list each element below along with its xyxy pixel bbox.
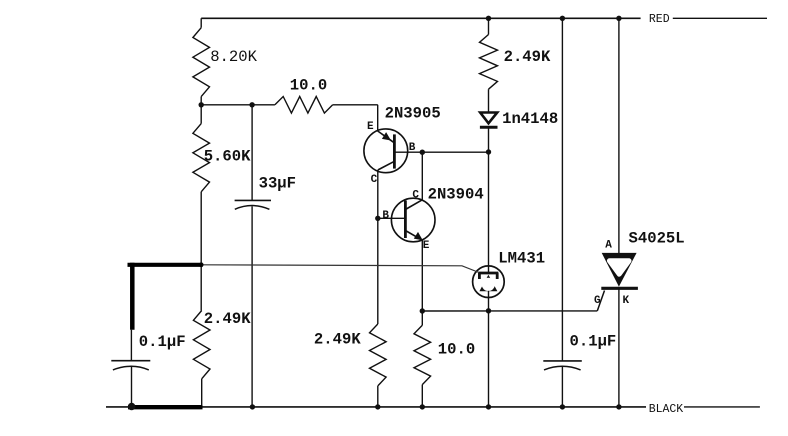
svg-text:S4025L: S4025L (629, 229, 685, 247)
svg-text:E: E (423, 240, 430, 252)
svg-text:2N3904: 2N3904 (428, 185, 484, 203)
svg-text:2N3905: 2N3905 (385, 105, 441, 123)
svg-text:2.49K: 2.49K (504, 48, 551, 66)
svg-text:0.1µF: 0.1µF (139, 333, 186, 351)
svg-text:2.49K: 2.49K (204, 310, 251, 328)
svg-text:A: A (605, 239, 612, 251)
svg-text:C: C (412, 190, 419, 202)
svg-text:33µF: 33µF (259, 174, 296, 192)
svg-text:10.0: 10.0 (290, 77, 327, 95)
svg-text:BLACK: BLACK (649, 403, 684, 416)
svg-text:K: K (623, 295, 630, 307)
svg-text:C: C (371, 174, 378, 186)
svg-text:0.1µF: 0.1µF (570, 333, 617, 351)
svg-text:10.0: 10.0 (438, 341, 475, 359)
svg-text:8.20K: 8.20K (210, 48, 257, 66)
svg-text:1n4148: 1n4148 (502, 110, 558, 128)
svg-text:2.49K: 2.49K (314, 330, 361, 348)
svg-text:G: G (594, 295, 601, 307)
svg-text:B: B (409, 142, 416, 154)
svg-text:RED: RED (649, 13, 670, 26)
svg-text:E: E (367, 121, 374, 133)
svg-text:5.60K: 5.60K (204, 147, 251, 165)
svg-text:LM431: LM431 (498, 249, 545, 267)
svg-text:B: B (382, 210, 389, 222)
